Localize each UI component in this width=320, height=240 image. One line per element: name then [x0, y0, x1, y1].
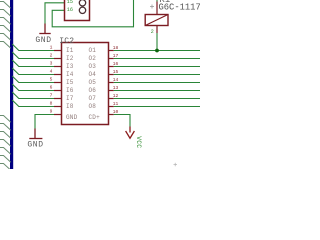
- svg-text:2: 2: [50, 52, 53, 58]
- svg-text:16: 16: [67, 7, 73, 13]
- svg-text:GND: GND: [66, 114, 78, 121]
- svg-text:I6: I6: [66, 87, 74, 94]
- wire net row6: [12, 84, 54, 91]
- svg-text:I1: I1: [66, 47, 74, 54]
- svg-text:4: 4: [50, 68, 53, 74]
- wire net O3 row16: [114, 66, 200, 68]
- wire net row5: [12, 76, 54, 83]
- svg-text:5: 5: [50, 76, 53, 82]
- bus tap wires bottom-left: [0, 116, 11, 171]
- relay coil top pin: [156, 2, 158, 15]
- wire VCC net from pin 10: [114, 115, 130, 127]
- svg-text:O2: O2: [89, 55, 97, 62]
- svg-text:O8: O8: [89, 103, 97, 110]
- wire net row1 (bus to IC2 pin 1): [12, 44, 54, 51]
- IC2 left pin stubs 1-9: [54, 51, 62, 115]
- wire net row2: [12, 52, 54, 59]
- svg-text:VCC: VCC: [135, 136, 142, 148]
- wire net O8 row11: [114, 106, 200, 108]
- wire net row8: [12, 100, 54, 107]
- connector pin circle 15: [79, 0, 85, 6]
- wire net row4: [12, 68, 54, 75]
- part origin cross (bottom right): [174, 163, 178, 167]
- connector pin circle 16: [79, 7, 85, 13]
- svg-text:GND: GND: [27, 141, 43, 150]
- svg-text:9: 9: [50, 108, 53, 114]
- bus tap wires top-left: [0, 2, 11, 49]
- ground symbol GND (bottom): [29, 129, 42, 139]
- wire net O1 row18 to right edge: [114, 50, 200, 52]
- wire net row3: [12, 60, 54, 67]
- svg-text:1: 1: [50, 44, 53, 50]
- svg-text:G6C-1117P: G6C-1117P: [159, 2, 201, 12]
- wire GND net at IC2 pin 9: [35, 115, 55, 129]
- connector box (pin header): [65, 0, 90, 21]
- svg-text:O7: O7: [89, 95, 97, 102]
- svg-text:GND: GND: [35, 36, 51, 45]
- wire net from connector pin 16: [52, 0, 133, 27]
- svg-text:O1: O1: [89, 47, 97, 54]
- svg-text:3: 3: [50, 60, 53, 66]
- svg-text:I3: I3: [66, 63, 74, 70]
- wire net to coil top: [156, 0, 158, 2]
- svg-text:I5: I5: [66, 79, 74, 86]
- svg-text:CD+: CD+: [89, 114, 101, 121]
- wire net O5 row14: [114, 82, 200, 84]
- pin numbers 18-10 right: [113, 45, 119, 115]
- wire net coil bottom to row18: [156, 33, 158, 51]
- svg-text:2: 2: [151, 29, 154, 35]
- origin cross K1: [150, 5, 154, 9]
- wire net O7 row12: [114, 98, 200, 100]
- relay coil K1: [145, 15, 168, 26]
- IC2 pin names O1-O8, CD+: [89, 47, 101, 121]
- IC2 box: [62, 43, 109, 125]
- IC2 pin names I1-I8: [66, 47, 78, 121]
- svg-text:O6: O6: [89, 87, 97, 94]
- relay coil bottom pin: [156, 26, 158, 34]
- svg-text:8: 8: [50, 100, 53, 106]
- svg-text:I2: I2: [66, 55, 74, 62]
- junction dot on row18: [155, 49, 159, 53]
- supply symbol VCC arrow: [126, 127, 135, 139]
- svg-text:O5: O5: [89, 79, 97, 86]
- svg-text:6: 6: [50, 84, 53, 90]
- wire net O6 row13: [114, 90, 200, 92]
- bus B$1: [10, 0, 13, 169]
- svg-text:I8: I8: [66, 103, 74, 110]
- svg-text:15: 15: [67, 0, 73, 5]
- svg-text:I7: I7: [66, 95, 74, 102]
- wire net row7: [12, 92, 54, 99]
- svg-text:O3: O3: [89, 63, 97, 70]
- IC2 right pin stubs 18-10: [109, 51, 114, 115]
- ground symbol GND (top): [39, 24, 50, 34]
- svg-text:I4: I4: [66, 71, 74, 78]
- svg-text:7: 7: [50, 92, 53, 98]
- svg-text:IC2: IC2: [59, 37, 74, 46]
- svg-text:O4: O4: [89, 71, 97, 78]
- wire GND net from connector pin 15: [45, 3, 83, 24]
- wire net O2 row17: [114, 58, 200, 60]
- wire net O4 row15: [114, 74, 200, 76]
- pin numbers 1-9 left: [50, 44, 53, 114]
- relay coil diagonal: [145, 15, 168, 26]
